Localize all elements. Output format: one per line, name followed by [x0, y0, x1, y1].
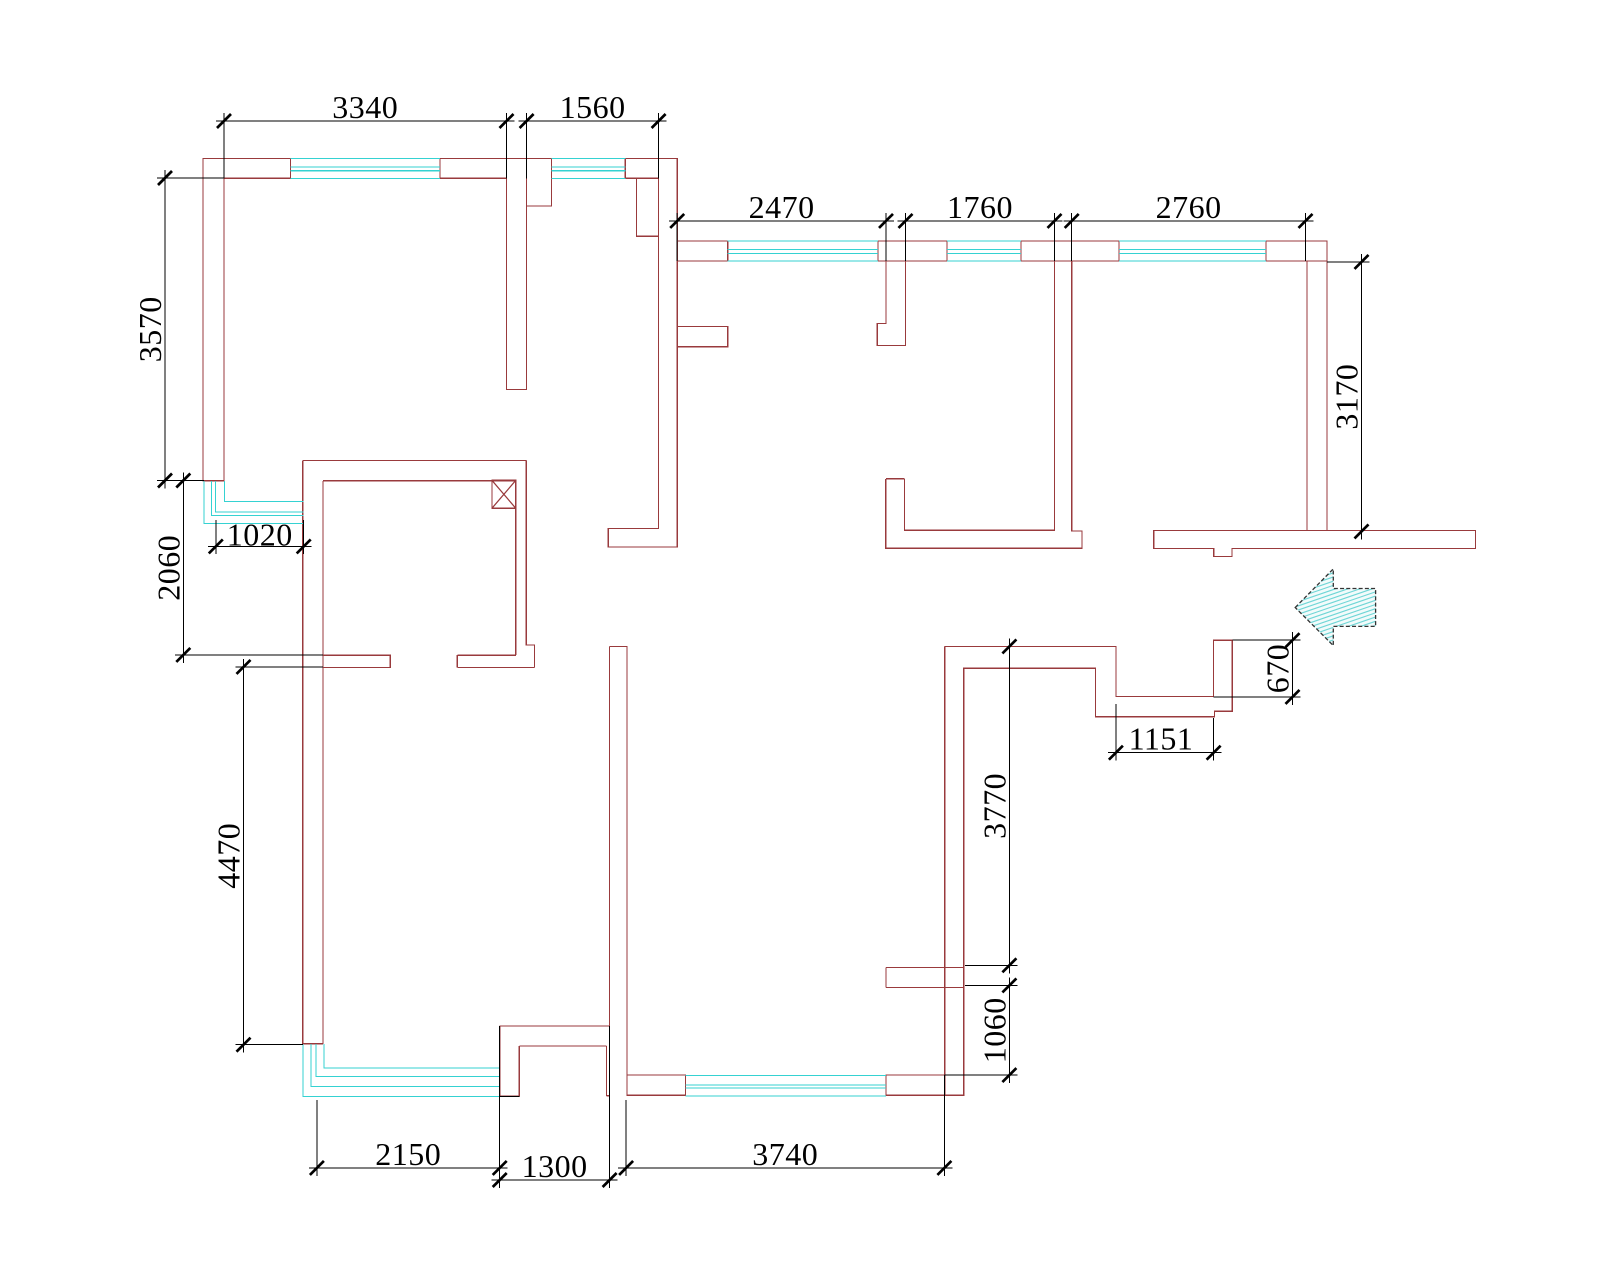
wall: pier right end of window 3740 [886, 1075, 945, 1095]
wall: west wall of lower-left room [303, 461, 323, 1044]
svg-text:3570: 3570 [132, 296, 168, 362]
svg-text:1300: 1300 [522, 1148, 588, 1184]
wall: bottom bay window outline [500, 1026, 610, 1096]
wall: east wall E [1307, 261, 1327, 530]
dimension 1151 [1115, 704, 1117, 761]
dimension 1560 [526, 113, 528, 178]
wall: pier between window D and E [1021, 241, 1119, 261]
wall: main vertical wall B with bottom room2 band [608, 159, 677, 547]
corner window 2150 [303, 1044, 500, 1097]
window B (1560 top-left) [552, 159, 626, 179]
svg-text:2760: 2760 [1156, 189, 1222, 225]
wall: top pier right of window B [625, 159, 658, 179]
wall: wall C lower + room2 bottom band + wall D [886, 261, 1082, 548]
window D (1760) [947, 241, 1021, 261]
dimension 1300 [609, 1026, 611, 1188]
window A (3340 top-left) [291, 159, 441, 179]
wall: corridor wall with entry step [945, 640, 1233, 1095]
wall: interior partition between bedroom1 and bedroom2 [507, 159, 527, 390]
svg-text:3770: 3770 [976, 773, 1012, 839]
svg-text:2060: 2060 [150, 535, 186, 601]
wall: pantry band [457, 655, 534, 667]
wall: door stub left of corridor wall [886, 968, 964, 988]
svg-text:2470: 2470 [749, 189, 815, 225]
svg-text:3740: 3740 [752, 1136, 818, 1172]
dimension 2150 [316, 1100, 318, 1176]
column box with X at hall corner [492, 480, 516, 508]
wall: hall bottom stub [323, 655, 390, 667]
dimension 4470 vertical [236, 666, 323, 668]
dimension 2470 [676, 213, 678, 261]
svg-text:2150: 2150 [375, 1136, 441, 1172]
svg-text:3340: 3340 [332, 89, 398, 125]
dimension 1060 vertical [965, 984, 1017, 986]
wall: pier between window C and D with wall C upper [878, 241, 947, 261]
dimension 3170 vertical [1327, 261, 1370, 263]
svg-text:1560: 1560 [560, 89, 626, 125]
wall: thin wall below hall band [516, 461, 535, 668]
wall: hall top band [303, 461, 527, 481]
dimension 1760 [905, 213, 907, 261]
dimension 670 vertical [1232, 639, 1300, 641]
dimension 2060 vertical [175, 654, 323, 656]
svg-text:1760: 1760 [947, 189, 1013, 225]
dimension 1020 [215, 520, 217, 554]
svg-text:3170: 3170 [1329, 364, 1365, 430]
wall: wall C upper leg with foot [877, 261, 905, 345]
column: top wall column at x527-551 [527, 159, 552, 207]
svg-text:4470: 4470 [211, 823, 247, 889]
wall: pier left end of window 3740 [627, 1075, 686, 1095]
svg-text:1151: 1151 [1129, 721, 1194, 757]
wall: top-left room left wall + top-left pier [203, 159, 291, 481]
dimension 3340 with extension lines [223, 113, 225, 178]
dimension 3740 [625, 1100, 627, 1176]
svg-text:1020: 1020 [227, 517, 293, 553]
wall: right corner pier of top band [1266, 241, 1327, 261]
corner window 1020 [204, 481, 304, 524]
wall: pilaster strip below top wall [637, 178, 659, 236]
window C (2470) [728, 241, 878, 261]
svg-text:670: 670 [1260, 644, 1296, 694]
svg-text:1060: 1060 [976, 997, 1012, 1063]
dimension 2760 [1071, 213, 1073, 261]
dimension 3570 vertical [157, 177, 224, 179]
wall: pier left end of top-right band [677, 241, 728, 261]
window E (2760) [1119, 241, 1266, 261]
wall: stub on wall B right side [677, 327, 728, 347]
wall: top pier between window A and window gap [440, 159, 507, 179]
wall: entry slab with notch [1154, 530, 1476, 556]
wall: kitchen-dining wall [609, 647, 627, 1096]
dimension 3770 vertical [965, 964, 1017, 966]
window 3740 bottom [686, 1076, 887, 1097]
